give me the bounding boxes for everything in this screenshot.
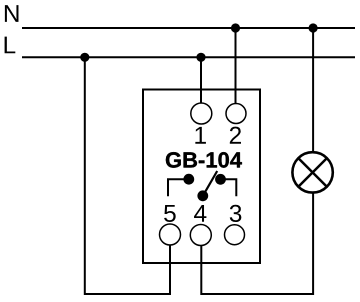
switch S lever: [203, 171, 217, 196]
lamp E1 cross stroke 1: [298, 158, 327, 187]
net label L: [5, 37, 16, 54]
junction: N rail to terminal-2 branch: [231, 23, 240, 32]
terminal circle 2: [226, 104, 246, 124]
device GB-104 outline box: [143, 90, 260, 264]
pin label 3: [230, 205, 242, 222]
switch S left contact dot: [183, 174, 194, 185]
switch S contact bracket left (to terminal 5): [168, 179, 187, 196]
terminal circle 3: [225, 225, 245, 245]
pin label 2: [230, 127, 241, 144]
wire: N rail: [22, 27, 355, 29]
pin label 4: [194, 205, 206, 222]
switch S right contact dot: [215, 174, 226, 185]
wire: N rail down to lamp top: [312, 28, 314, 153]
wire: N rail down to terminal 2: [235, 28, 237, 104]
lamp E1 cross stroke 2: [298, 158, 327, 187]
net label N: [5, 5, 19, 22]
pin label 5: [164, 205, 176, 222]
switch S contact bracket right (to terminal 3): [221, 179, 236, 196]
lamp E1 circle: [292, 152, 332, 192]
terminal circle 5: [160, 224, 181, 245]
value label GB-104: [166, 152, 242, 168]
junction: L rail to terminal-1 branch: [196, 53, 205, 62]
wire: L rail down to terminal 1: [200, 57, 202, 103]
wire: terminal 4 down, along bottom, up into lamp bottom: [201, 192, 313, 294]
terminal circle 4: [190, 225, 211, 246]
terminal circle 1: [191, 103, 212, 124]
wire: L rail down, along bottom, up into terminal 5: [85, 57, 170, 294]
wire: L rail: [22, 56, 355, 58]
junction: L rail to terminal-5 branch: [80, 53, 89, 62]
junction: N rail to lamp branch: [309, 23, 318, 32]
pin label 1: [195, 127, 206, 144]
switch S pivot dot (to terminal 4): [197, 190, 208, 201]
